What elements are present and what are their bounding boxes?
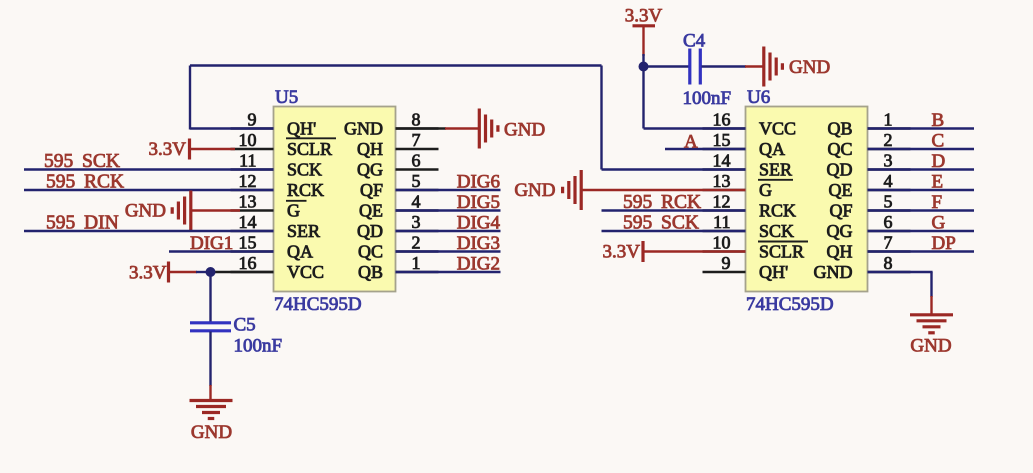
- net label 595 RCK wire to U6 pin 12: [602, 192, 746, 213]
- svg-text:VCC: VCC: [287, 262, 324, 282]
- pin 2 of U6: [868, 130, 911, 150]
- svg-text:SCLR: SCLR: [759, 242, 804, 262]
- svg-text:595 SCK: 595 SCK: [623, 212, 699, 233]
- power port 3.3V at U6 pin 10 SCLR: [603, 241, 746, 263]
- ground GND at U5 pin 13: [125, 191, 240, 231]
- ground GND at C4: [764, 47, 830, 87]
- svg-text:QG: QG: [827, 221, 853, 241]
- svg-text:9: 9: [722, 253, 731, 273]
- net label DIG6 wire from U5 pin 5: [396, 171, 501, 192]
- pin 12 of U6: [703, 192, 746, 212]
- IC U5 74HC595D shift register: [274, 87, 396, 315]
- svg-text:2: 2: [412, 233, 421, 253]
- wire junction to C4: [644, 65, 689, 67]
- capacitor C4 100nF: [683, 31, 732, 110]
- svg-text:DIG2: DIG2: [457, 253, 500, 274]
- pin 1 of U6: [868, 110, 911, 130]
- svg-text:DIG4: DIG4: [457, 212, 501, 233]
- svg-text:QE: QE: [359, 201, 383, 221]
- svg-text:SCLR: SCLR: [287, 139, 332, 159]
- junction node 3.3V / C4 / U6 VCC: [639, 62, 649, 72]
- pin 4 of U5: [396, 192, 439, 212]
- ground GND below U6: [910, 315, 953, 357]
- svg-text:QH': QH': [759, 262, 788, 282]
- pin 1 of U5: [396, 253, 439, 273]
- svg-text:595 RCK: 595 RCK: [46, 172, 124, 193]
- svg-text:RCK: RCK: [287, 180, 324, 200]
- pin 5 of U5: [396, 171, 439, 191]
- wire C5 down to ground: [209, 332, 211, 401]
- svg-text:3.3V: 3.3V: [625, 6, 663, 27]
- svg-text:3.3V: 3.3V: [129, 263, 167, 284]
- svg-text:5: 5: [412, 171, 421, 191]
- svg-text:9: 9: [248, 110, 257, 130]
- pin 9 of U6: [703, 253, 746, 273]
- net label DIG1 wire to U5 pin 15 QA: [169, 233, 274, 254]
- net label DIG5 wire from U5 pin 4: [396, 192, 501, 213]
- pin 3 of U5: [396, 212, 439, 232]
- svg-text:16: 16: [239, 253, 257, 273]
- svg-text:15: 15: [713, 130, 731, 150]
- pin 15 of U6: [703, 130, 746, 150]
- svg-text:3.3V: 3.3V: [149, 139, 187, 160]
- svg-text:GND: GND: [514, 180, 555, 201]
- svg-text:10: 10: [713, 233, 731, 253]
- svg-text:6: 6: [412, 151, 421, 171]
- svg-text:QF: QF: [829, 201, 852, 221]
- net label 595 RCK wire to U5 pin 12: [24, 172, 274, 193]
- svg-text:7: 7: [884, 233, 893, 253]
- svg-text:QC: QC: [358, 242, 383, 262]
- svg-text:11: 11: [239, 151, 256, 171]
- svg-text:14: 14: [239, 212, 257, 232]
- svg-text:QD: QD: [357, 221, 383, 241]
- svg-text:14: 14: [713, 151, 731, 171]
- pin 7 of U5: [396, 130, 439, 150]
- svg-text:SER: SER: [287, 221, 320, 241]
- pin 11 of U6: [703, 212, 746, 232]
- svg-text:4: 4: [884, 171, 893, 191]
- pin 5 of U6: [868, 192, 911, 212]
- pin 13 of U6: [703, 171, 746, 191]
- wire U5 QH' pin9 up-over-down to U6 SER pin14: [190, 66, 746, 170]
- wire U6 GND pin 8 to ground: [868, 272, 933, 314]
- svg-text:3.3V: 3.3V: [603, 242, 641, 263]
- svg-text:DIG6: DIG6: [457, 171, 500, 192]
- svg-text:10: 10: [239, 130, 257, 150]
- net label DIG2 wire from U5 pin 1: [396, 253, 501, 274]
- pin 16 of U5: [231, 253, 274, 273]
- pin 13 of U5: [231, 192, 274, 212]
- svg-text:DIG3: DIG3: [457, 233, 500, 254]
- svg-text:QB: QB: [827, 119, 852, 139]
- svg-text:QH: QH: [827, 242, 853, 262]
- svg-text:QH': QH': [287, 119, 316, 139]
- pin 4 of U6: [868, 171, 911, 191]
- junction node at U5 VCC / C5: [206, 267, 216, 277]
- svg-text:QF: QF: [360, 180, 383, 200]
- svg-text:U5: U5: [275, 87, 298, 108]
- svg-text:G: G: [932, 212, 946, 233]
- svg-text:QA: QA: [287, 242, 313, 262]
- svg-text:B: B: [932, 110, 945, 131]
- svg-text:QE: QE: [829, 180, 853, 200]
- pin 6 of U5: [396, 151, 439, 171]
- capacitor C5 100nF: [190, 315, 282, 357]
- svg-text:G: G: [759, 180, 772, 200]
- net label DIG3 wire from U5 pin 2: [396, 233, 501, 254]
- pin 10 of U6: [703, 233, 746, 253]
- svg-text:74HC595D: 74HC595D: [274, 294, 362, 315]
- svg-text:5: 5: [884, 192, 893, 212]
- IC U6 74HC595D shift register: [746, 87, 868, 315]
- svg-text:595 DIN: 595 DIN: [46, 213, 119, 234]
- svg-text:12: 12: [239, 171, 257, 191]
- net label G wire from U6 pin 6: [868, 212, 975, 233]
- svg-text:13: 13: [713, 171, 731, 191]
- svg-text:RCK: RCK: [759, 201, 796, 221]
- net label 595 SCK wire to U6 pin 11: [602, 212, 746, 233]
- svg-text:QA: QA: [759, 139, 785, 159]
- net label 595 DIN wire to U5 pin 14 SER: [24, 213, 274, 234]
- svg-text:SCK: SCK: [759, 221, 794, 241]
- svg-text:QH: QH: [357, 139, 383, 159]
- svg-text:12: 12: [713, 192, 731, 212]
- svg-text:1: 1: [884, 110, 893, 130]
- svg-text:QB: QB: [358, 262, 383, 282]
- svg-text:F: F: [932, 192, 943, 213]
- svg-text:C4: C4: [683, 31, 706, 52]
- svg-text:15: 15: [239, 233, 257, 253]
- svg-text:595 RCK: 595 RCK: [623, 192, 701, 213]
- net label F wire from U6 pin 5: [868, 192, 975, 213]
- svg-text:GND: GND: [789, 57, 830, 78]
- svg-text:GND: GND: [910, 336, 951, 357]
- ground GND at U6 pin 13: [514, 170, 745, 210]
- svg-text:QC: QC: [827, 139, 852, 159]
- power port 3.3V top: [625, 6, 663, 57]
- svg-text:E: E: [932, 171, 944, 192]
- svg-text:D: D: [932, 151, 946, 172]
- svg-text:DIG1: DIG1: [190, 233, 233, 254]
- svg-text:GND: GND: [125, 201, 166, 222]
- svg-text:SCK: SCK: [287, 160, 322, 180]
- wire junction to U6 VCC pin 16: [644, 54, 746, 129]
- net label C wire from U6 pin 2: [868, 130, 975, 151]
- pin 8 of U6: [868, 253, 911, 273]
- svg-text:16: 16: [713, 110, 731, 130]
- pin 14 of U5: [231, 212, 274, 232]
- svg-text:7: 7: [412, 130, 421, 150]
- wire C4 to ground: [702, 65, 764, 67]
- svg-text:DP: DP: [932, 233, 956, 254]
- pin 3 of U6: [868, 151, 911, 171]
- svg-text:U6: U6: [747, 87, 770, 108]
- ground GND at U5 pin 8: [396, 109, 546, 149]
- pin 15 of U5: [231, 233, 274, 253]
- power port 3.3V at U5 pin 10: [149, 139, 235, 161]
- svg-text:A: A: [684, 131, 698, 152]
- svg-text:DIG5: DIG5: [457, 192, 500, 213]
- wire U5 VCC down to C5: [209, 272, 211, 323]
- pin 11 of U5: [231, 151, 274, 171]
- svg-text:VCC: VCC: [759, 119, 796, 139]
- net label DP wire from U6 pin 7: [868, 233, 975, 254]
- svg-text:11: 11: [713, 212, 730, 232]
- pin 14 of U6: [703, 151, 746, 171]
- svg-text:13: 13: [239, 192, 257, 212]
- svg-text:GND: GND: [504, 120, 545, 141]
- svg-text:8: 8: [412, 110, 421, 130]
- net label D wire from U6 pin 3: [868, 151, 975, 172]
- svg-text:GND: GND: [191, 422, 232, 443]
- pin 16 of U6: [703, 110, 746, 130]
- svg-text:C: C: [932, 130, 945, 151]
- svg-text:SER: SER: [759, 160, 792, 180]
- pin 8 of U5: [396, 110, 439, 130]
- svg-text:G: G: [287, 201, 300, 221]
- svg-text:1: 1: [412, 253, 421, 273]
- pin 6 of U6: [868, 212, 911, 232]
- svg-text:QD: QD: [827, 160, 853, 180]
- pin 7 of U6: [868, 233, 911, 253]
- svg-text:3: 3: [884, 151, 893, 171]
- svg-text:8: 8: [884, 253, 893, 273]
- net label E wire from U6 pin 4: [868, 171, 975, 192]
- svg-text:74HC595D: 74HC595D: [746, 294, 834, 315]
- net label DIG4 wire from U5 pin 3: [396, 212, 501, 233]
- net label A wire to U6 pin 15 QA: [665, 131, 746, 152]
- power port 3.3V at U5 pin 16 VCC: [129, 262, 273, 284]
- pin 2 of U5: [396, 233, 439, 253]
- net label B wire from U6 pin 1: [868, 110, 975, 131]
- svg-text:2: 2: [884, 130, 893, 150]
- ground GND below C5: [190, 401, 233, 443]
- pin 12 of U5: [231, 171, 274, 191]
- svg-text:100nF: 100nF: [234, 336, 283, 357]
- net label 595 SCK wire to U5 pin 11: [24, 151, 274, 172]
- svg-text:GND: GND: [344, 119, 383, 139]
- svg-text:QG: QG: [357, 160, 383, 180]
- svg-text:C5: C5: [234, 315, 256, 336]
- svg-text:6: 6: [884, 212, 893, 232]
- svg-text:3: 3: [412, 212, 421, 232]
- pin 10 of U5: [231, 130, 274, 150]
- svg-text:595 SCK: 595 SCK: [44, 151, 120, 172]
- pin 9 of U5: [231, 110, 274, 130]
- svg-text:100nF: 100nF: [683, 88, 732, 109]
- svg-text:GND: GND: [814, 262, 853, 282]
- svg-text:4: 4: [412, 192, 421, 212]
